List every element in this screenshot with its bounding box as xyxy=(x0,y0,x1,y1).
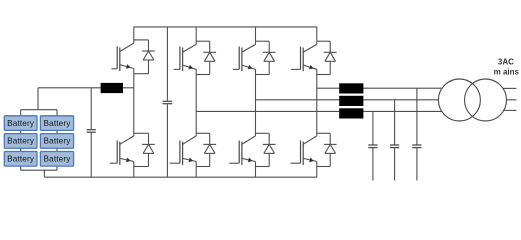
svg-text:Battery: Battery xyxy=(7,137,35,146)
svg-text:Battery: Battery xyxy=(44,154,72,163)
svg-text:Battery: Battery xyxy=(7,119,35,128)
svg-text:Battery: Battery xyxy=(44,137,72,146)
svg-text:Battery: Battery xyxy=(44,119,72,128)
svg-text:m ains: m ains xyxy=(494,67,520,76)
svg-text:Battery: Battery xyxy=(7,154,35,163)
svg-text:3AC: 3AC xyxy=(498,58,514,67)
